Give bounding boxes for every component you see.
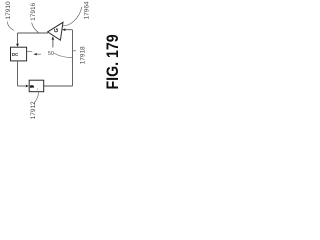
wire top horizontal <box>18 32 48 34</box>
svg-text:17916: 17916 <box>30 2 37 20</box>
svg-text:17910: 17910 <box>5 1 12 19</box>
input arrow toward DC box <box>33 53 36 55</box>
svg-text:17912: 17912 <box>30 101 37 119</box>
leader for 17916 <box>32 23 39 33</box>
block bottom box glyph <box>30 85 35 88</box>
stub wire from DC box right <box>27 51 33 53</box>
block DC box <box>11 47 27 61</box>
block bottom box <box>29 80 44 92</box>
arrowhead into DC box top <box>16 44 19 47</box>
svg-text:G: G <box>54 28 60 32</box>
wire bottom left horizontal <box>18 85 26 87</box>
svg-text:50: 50 <box>48 51 54 57</box>
svg-text:DC: DC <box>12 52 18 57</box>
wire right vertical <box>72 30 74 86</box>
svg-text:FIG. 179: FIG. 179 <box>104 34 122 89</box>
input arrow into op-amp bottom <box>52 40 54 48</box>
label 17918 leader tick <box>73 50 76 52</box>
svg-text:17964: 17964 <box>84 1 91 19</box>
wire bottom left vertical <box>17 61 19 86</box>
leader for 50 <box>54 53 73 58</box>
op-amp G <box>48 22 63 40</box>
wire top-left vertical into DC box <box>17 33 19 44</box>
wire bottom right horizontal <box>44 85 73 87</box>
svg-text:17918: 17918 <box>80 46 87 64</box>
leader for 17912 <box>34 93 39 104</box>
leader for 17964 <box>62 7 82 26</box>
arrowhead into bottom box left <box>26 85 29 88</box>
feedback arrow into op-amp right side <box>62 28 65 31</box>
leader for 17910 <box>7 22 14 31</box>
